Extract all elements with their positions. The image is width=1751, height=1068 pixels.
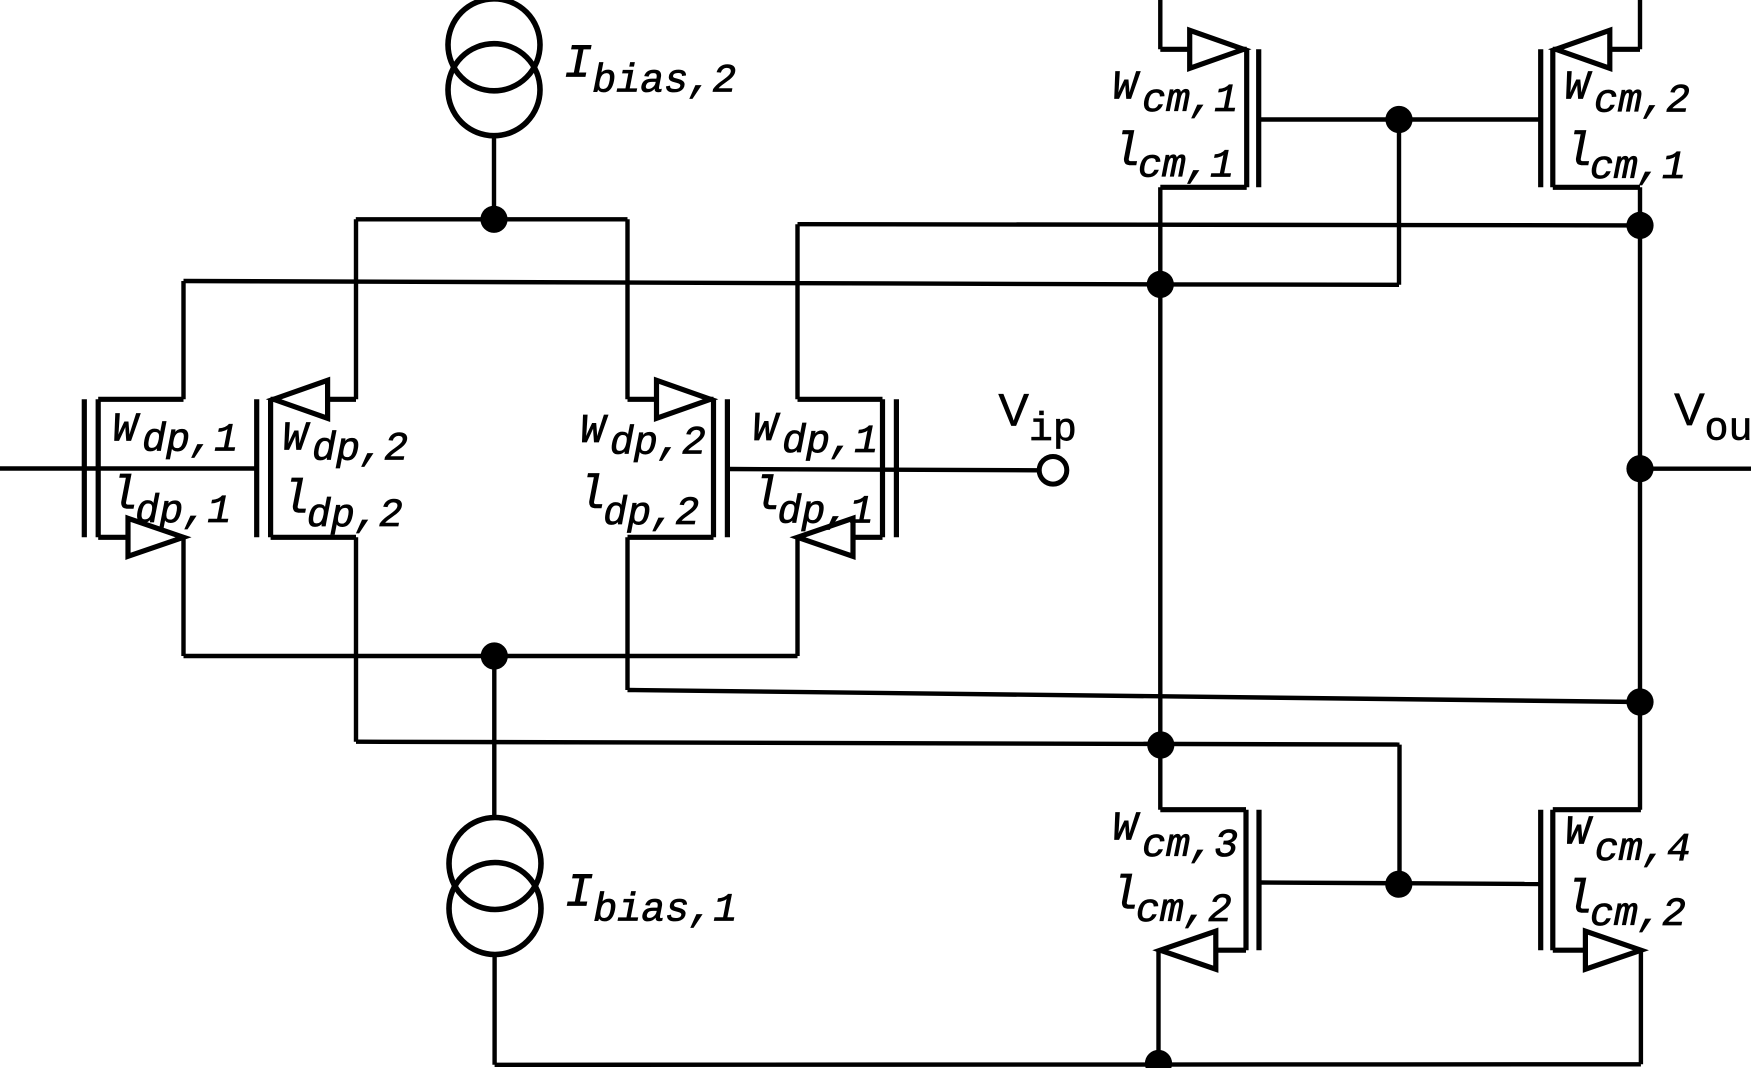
transistor M3 (W_dp,2 l_dp,2)	[628, 380, 728, 537]
wire M2 source drop	[354, 537, 358, 741]
label V_out	[1674, 384, 1751, 453]
node Mcm3 drain (junction)	[1147, 731, 1174, 758]
wire M2 drain riser	[354, 219, 358, 399]
label l_cm,2 (Mcm4)	[1565, 874, 1686, 938]
wire top mirror gate drop	[1397, 120, 1401, 285]
node tail bottom (junction)	[481, 642, 508, 669]
label W_cm,1 (Mcm1)	[1113, 66, 1239, 124]
wire M4 source drop	[795, 537, 799, 656]
wire bottom mirror gate	[1259, 883, 1541, 885]
wire tail to I_bias,1	[492, 656, 496, 818]
wire M1 drain riser	[181, 281, 185, 399]
terminal Vip (open circle)	[1039, 457, 1067, 485]
label V_ip	[999, 385, 1077, 454]
wire drop to bottom-mirror gates	[1397, 745, 1401, 885]
label W_dp,1 (M4)	[753, 407, 879, 465]
wire Mcm4 source drop	[1639, 950, 1643, 1064]
label l_dp,1 (M4)	[752, 471, 873, 536]
label W_cm,4 (Mcm4)	[1565, 810, 1691, 873]
transistor M2 (W_dp,2 l_dp,2)	[257, 380, 356, 537]
label l_dp,1 (M1)	[110, 471, 231, 535]
label W_dp,1 (M1)	[113, 408, 239, 464]
wire ground rail	[495, 1062, 1641, 1067]
wire output to Vout	[1640, 467, 1751, 471]
wire input gate right to Vip	[727, 469, 1039, 470]
label W_cm,3 (Mcm3)	[1113, 806, 1239, 869]
label I_bias,2	[564, 39, 736, 105]
wire sources M1-M4	[184, 654, 798, 658]
node M4-drain/Mcm2 (junction)	[1626, 212, 1653, 239]
label l_cm,1 (Mcm1)	[1113, 127, 1234, 189]
wire M1 drain to mirror node	[184, 281, 1161, 284]
transistor M1 (W_dp,1 l_dp,1)	[84, 399, 183, 556]
label l_dp,2 (M3)	[578, 470, 699, 537]
wire gate drop to Mcm1 drain	[1160, 282, 1399, 287]
label I_bias,1	[565, 867, 737, 933]
wire M1 source drop	[181, 537, 185, 656]
wire M3 drain riser	[625, 219, 629, 399]
current source I_bias,2	[448, 0, 540, 136]
wire Mcm2 source to VDD	[1638, 0, 1642, 49]
node output (junction)	[1626, 455, 1653, 482]
wire M4 drain to output branch	[798, 224, 1641, 225]
wire I_bias,2 to tail node	[492, 136, 496, 220]
transistor Mcm4 (W_cm,4 l_cm,2)	[1541, 810, 1641, 970]
node ground rail (junction)	[1145, 1050, 1172, 1068]
node bottom mirror gate (junction)	[1385, 871, 1412, 898]
current source I_bias,1	[449, 818, 541, 955]
wire M3 source to Mcm4 drain	[628, 690, 1641, 702]
wire left mirror branch	[1158, 187, 1162, 809]
wire I_bias,1 to ground rail	[492, 954, 496, 1064]
wire Mcm1 source to VDD	[1158, 0, 1162, 49]
node Mcm4 drain (junction)	[1626, 688, 1653, 715]
label W_dp,2 (M2)	[283, 417, 409, 473]
node top mirror gate (junction)	[1385, 106, 1412, 133]
label W_cm,2 (Mcm2)	[1564, 66, 1690, 125]
node tail top (junction)	[480, 206, 507, 233]
wire tail rail	[356, 217, 628, 221]
wire M3 source drop	[625, 537, 629, 690]
label l_cm,2 (Mcm3)	[1111, 870, 1232, 934]
node Mcm1 drain (junction)	[1147, 271, 1174, 298]
transistor Mcm2 (W_cm,2 l_cm,1)	[1541, 30, 1640, 187]
wire M4 drain riser	[795, 224, 799, 399]
transistor Mcm1 (W_cm,1 l_cm,1)	[1160, 30, 1258, 187]
wire input gate left	[0, 466, 257, 470]
label l_cm,1 (Mcm2)	[1565, 127, 1686, 191]
label W_dp,2 (M3)	[580, 409, 706, 466]
wire Mcm3 source drop	[1156, 950, 1160, 1063]
wire M2 source to Mcm3 drain	[356, 742, 1400, 745]
wire top mirror gate	[1259, 117, 1541, 121]
transistor Mcm3 (W_cm,3 l_cm,2)	[1160, 810, 1259, 970]
transistor M4 (W_dp,1 l_dp,1)	[798, 399, 897, 556]
wire right mirror branch	[1638, 187, 1642, 809]
label l_dp,2 (M2)	[282, 475, 403, 539]
